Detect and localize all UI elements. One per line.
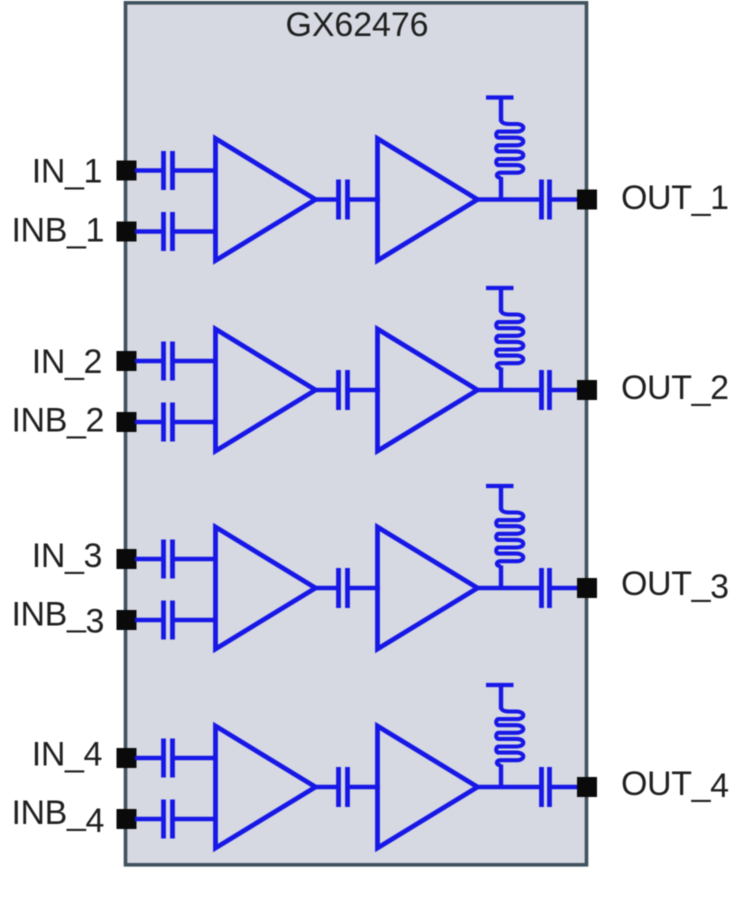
interstage coupling capacitor channel 2 [336, 370, 341, 410]
supply rail stub above inductor L2 [486, 286, 514, 290]
wire U2B output to output cap with inductor junction at node N2 [475, 388, 540, 392]
channel 2 amplifier chain [12, 288, 729, 451]
coupling capacitor on IN_4 [161, 739, 166, 778]
interstage coupling capacitor channel 3 [336, 568, 341, 608]
supply rail stub above inductor L4 [486, 683, 514, 687]
svg-text:OUT_2: OUT_2 [621, 369, 729, 407]
wire coupling cap to first-stage amplifier U1A inverting input [175, 229, 218, 233]
inductor L3 RF choke coil [496, 508, 523, 566]
wire INB_3 pin to coupling cap [135, 618, 162, 622]
wire output cap to OUT_1 pin [552, 197, 580, 201]
wire coupling cap to first-stage amplifier U3A inverting input [175, 618, 218, 622]
wire IN_3 pin to coupling cap [135, 557, 162, 561]
wire U3B output to output cap with inductor junction at node N3 [475, 586, 540, 590]
coupling capacitor on INB_1 [161, 212, 166, 251]
wire supply stub to inductor L1 [499, 98, 503, 122]
output coupling capacitor channel 2 [539, 370, 544, 410]
op-amp U2B second stage amplifier [378, 329, 478, 451]
output pin OUT_2 [577, 380, 597, 400]
wire U2A output to interstage cap [313, 388, 339, 392]
wire U1B output to output cap with inductor junction at node N1 [475, 197, 540, 201]
wire IN_4 pin to coupling cap [135, 756, 162, 760]
input pin IN_3 [117, 549, 137, 569]
svg-text:IN_1: IN_1 [32, 153, 102, 191]
svg-text:INB_2: INB_2 [12, 402, 105, 440]
coupling capacitor on INB_4 [161, 800, 166, 839]
svg-text:OUT_1: OUT_1 [621, 179, 729, 217]
interstage coupling capacitor channel 1 [336, 180, 341, 220]
wire IN_1 pin to coupling cap [135, 168, 162, 172]
wire output cap to OUT_3 pin [552, 586, 580, 590]
wire coupling cap to first-stage amplifier U3A input [175, 557, 218, 561]
op-amp U1A first stage amplifier [216, 139, 316, 261]
output coupling capacitor channel 1 [539, 180, 544, 220]
wire supply stub to inductor L3 [499, 486, 503, 510]
chip body GX62476 [126, 3, 587, 865]
output coupling capacitor channel 4 [539, 767, 544, 807]
wire U4B output to output cap with inductor junction at node N4 [475, 785, 540, 789]
wire coupling cap to first-stage amplifier U1A input [175, 168, 218, 172]
wire interstage cap to amplifier U2B [350, 388, 381, 392]
output coupling capacitor channel 3 [539, 568, 544, 608]
svg-text:IN_2: IN_2 [32, 343, 102, 381]
input pin INB_3 [117, 610, 137, 630]
inductor L1 RF choke coil [496, 120, 523, 178]
wire U3A output to interstage cap [313, 586, 339, 590]
wire output cap to OUT_4 pin [552, 785, 580, 789]
wire inductor L4 to output node [499, 765, 503, 790]
op-amp U4A first stage amplifier [216, 726, 316, 848]
inductor L2 RF choke coil [496, 310, 523, 368]
wire U1A output to interstage cap [313, 197, 339, 201]
wire inductor L2 to output node [499, 368, 503, 393]
input pin IN_4 [117, 748, 137, 768]
wire inductor L1 to output node [499, 177, 503, 202]
inductor L4 RF choke coil [496, 707, 523, 765]
wire interstage cap to amplifier U4B [350, 785, 381, 789]
wire interstage cap to amplifier U1B [350, 197, 381, 201]
input pin INB_4 [117, 809, 137, 829]
input pin IN_2 [117, 351, 137, 371]
coupling capacitor on IN_2 [161, 342, 166, 381]
svg-text:INB_1: INB_1 [12, 212, 105, 250]
svg-text:IN_4: IN_4 [32, 736, 102, 774]
svg-text:IN_3: IN_3 [32, 537, 102, 575]
wire output cap to OUT_2 pin [552, 388, 580, 392]
wire coupling cap to first-stage amplifier U2A inverting input [175, 420, 218, 424]
output pin OUT_4 [577, 777, 597, 797]
wire IN_2 pin to coupling cap [135, 359, 162, 363]
channel 4 amplifier chain [11, 685, 728, 848]
wire coupling cap to first-stage amplifier U4A inverting input [175, 817, 218, 821]
wire U4A output to interstage cap [313, 785, 339, 789]
coupling capacitor on IN_1 [161, 151, 166, 190]
op-amp U3A first stage amplifier [216, 527, 316, 649]
input pin IN_1 [117, 161, 137, 181]
supply rail stub above inductor L1 [486, 95, 514, 99]
wire supply stub to inductor L2 [499, 288, 503, 312]
wire INB_4 pin to coupling cap [135, 817, 162, 821]
wire inductor L3 to output node [499, 566, 503, 591]
op-amp U4B second stage amplifier [378, 726, 478, 848]
interstage coupling capacitor channel 4 [336, 767, 341, 807]
wire interstage cap to amplifier U3B [350, 586, 381, 590]
wire supply stub to inductor L4 [499, 685, 503, 709]
channel 1 amplifier chain [12, 98, 729, 261]
supply rail stub above inductor L3 [486, 484, 514, 488]
coupling capacitor on IN_3 [161, 540, 166, 579]
op-amp U3B second stage amplifier [378, 527, 478, 649]
wire coupling cap to first-stage amplifier U2A input [175, 359, 218, 363]
svg-text:OUT_4: OUT_4 [621, 765, 729, 805]
coupling capacitor on INB_3 [161, 601, 166, 640]
op-amp U1B second stage amplifier [378, 139, 478, 261]
input pin INB_2 [117, 412, 137, 432]
wire coupling cap to first-stage amplifier U4A input [175, 756, 218, 760]
output pin OUT_3 [577, 578, 597, 598]
svg-text:OUT_3: OUT_3 [621, 565, 729, 606]
svg-text:GX62476: GX62476 [286, 6, 429, 44]
op-amp U2A first stage amplifier [216, 329, 316, 451]
channel 3 amplifier chain [11, 486, 728, 649]
coupling capacitor on INB_2 [161, 403, 166, 442]
input pin INB_1 [117, 222, 137, 242]
output pin OUT_1 [577, 190, 597, 210]
wire INB_2 pin to coupling cap [135, 420, 162, 424]
wire INB_1 pin to coupling cap [135, 229, 162, 233]
